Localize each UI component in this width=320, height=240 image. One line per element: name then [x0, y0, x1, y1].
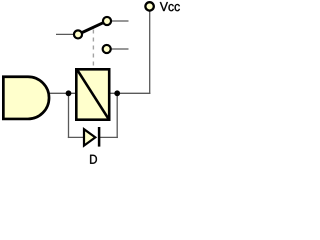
switch blade	[82, 23, 103, 33]
label Vcc	[160, 2, 180, 11]
switch upper throw terminal	[103, 17, 111, 25]
wire diode cathode to right branch	[100, 136, 118, 138]
Vcc terminal	[145, 2, 153, 10]
diode D	[84, 127, 99, 147]
switch lower throw terminal	[103, 45, 111, 53]
relay coil	[76, 69, 109, 119]
node junction right	[114, 90, 120, 96]
AND gate	[3, 77, 49, 119]
mechanical linkage dashed line	[92, 30, 94, 69]
wire vertical to Vcc	[149, 11, 151, 94]
wire coil right to Vcc corner	[110, 92, 150, 94]
node junction left	[66, 90, 72, 96]
wire right branch up	[116, 93, 118, 138]
wire left branch down	[68, 93, 70, 138]
wire upper throw stub	[112, 20, 129, 22]
wire gate output to coil	[47, 92, 76, 94]
label D	[90, 155, 97, 164]
wire bottom left to diode anode	[68, 136, 84, 138]
wire switch pole stub	[56, 33, 74, 35]
wire lower throw stub	[112, 48, 129, 50]
switch pole terminal	[74, 30, 82, 38]
